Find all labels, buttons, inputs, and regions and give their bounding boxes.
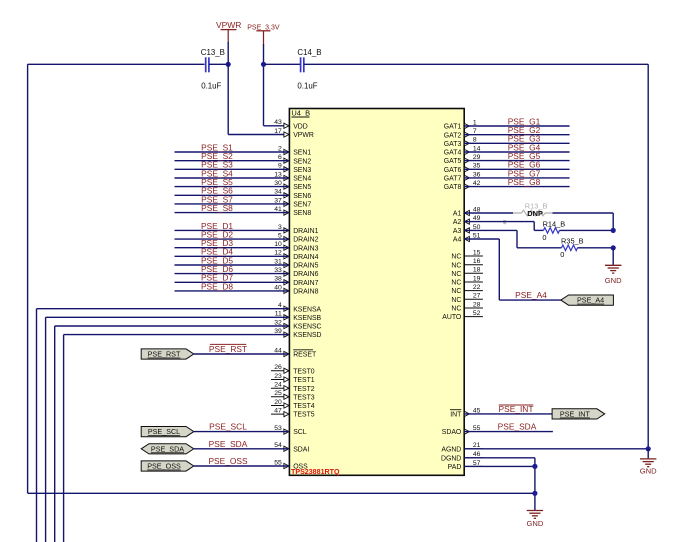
svg-text:0.1uF: 0.1uF: [201, 82, 221, 91]
svg-text:24: 24: [274, 382, 282, 389]
wire PSE_S6: [175, 186, 290, 196]
resistor R14_B: [542, 219, 565, 242]
node AGND junction: [646, 446, 651, 451]
svg-text:15: 15: [473, 249, 481, 256]
pin SEN4 (13): [274, 171, 311, 182]
ground GND (A-network): [605, 265, 622, 285]
off-page connector PSE_INT: [552, 409, 605, 419]
wire PSE_S3: [175, 160, 290, 170]
wire PSE_G6: [464, 160, 569, 170]
svg-text:TEST0: TEST0: [293, 368, 315, 375]
wire A1 to junction: [553, 213, 614, 230]
pin GAT8 (42): [444, 180, 481, 191]
svg-text:NC: NC: [451, 254, 461, 261]
wire PSE_D7: [175, 273, 290, 283]
wire R35_B to junction: [578, 247, 614, 249]
svg-text:NC: NC: [451, 271, 461, 278]
wire PSE_S4: [175, 168, 290, 178]
svg-text:PSE_G8: PSE_G8: [508, 177, 541, 187]
svg-text:18: 18: [473, 267, 481, 274]
wire PSE_D6: [175, 264, 290, 274]
pin AGND (21): [441, 442, 483, 453]
wire R14_B to junction: [560, 229, 614, 231]
pin SEN1 (2): [278, 145, 311, 156]
wire KSENSB: [46, 317, 289, 542]
svg-text:GAT8: GAT8: [444, 184, 462, 191]
wire PSE_S2: [175, 151, 290, 161]
wire VPWR rail top-left to C13_B: [28, 63, 205, 65]
ground GND (AGND): [640, 459, 657, 476]
svg-text:C13_B: C13_B: [201, 48, 225, 57]
wire PSE_G3: [464, 134, 569, 144]
pin DRAIN5 (31): [274, 258, 318, 269]
wire PSE_D5: [175, 255, 290, 265]
pin GAT5 (29): [444, 154, 481, 165]
svg-text:DNP: DNP: [527, 209, 543, 218]
wire PSE_S7: [175, 194, 290, 204]
pin SEN3 (9): [278, 163, 311, 174]
svg-text:SEN5: SEN5: [293, 184, 311, 191]
svg-text:22: 22: [473, 284, 481, 291]
svg-text:17: 17: [274, 128, 282, 135]
pin GAT1 (1): [444, 119, 477, 130]
svg-text:NC: NC: [451, 306, 461, 313]
pin NC (15): [451, 249, 483, 260]
wire PSE_OSS net label: [194, 456, 289, 466]
power symbol PSE_3.3V: [247, 24, 280, 45]
wire PSE_S8: [175, 203, 290, 213]
svg-text:GAT2: GAT2: [444, 132, 462, 139]
svg-text:DRAIN7: DRAIN7: [293, 280, 318, 287]
wire PSE_RST net label: [194, 344, 289, 354]
svg-text:16: 16: [473, 258, 481, 265]
pin A1 (48): [453, 206, 481, 217]
wire PSE_D1: [175, 221, 290, 231]
svg-text:PSE_RST: PSE_RST: [209, 344, 247, 354]
resistor R13_B (DNP): [464, 201, 552, 224]
node GND return junction: [532, 491, 537, 496]
wire PSE_D3: [175, 238, 290, 248]
wire PAD: [464, 465, 535, 467]
pin RESET (44): [274, 347, 317, 358]
wire PSE_SDA net label: [194, 439, 289, 449]
off-page connector PSE_OSS: [141, 461, 194, 471]
svg-text:R35_B: R35_B: [561, 237, 584, 246]
svg-text:DRAIN6: DRAIN6: [293, 271, 318, 278]
svg-text:TEST1: TEST1: [293, 377, 315, 384]
wire KSENSD: [64, 335, 289, 542]
node PSE_3.3V junction: [261, 62, 266, 67]
svg-text:VDD: VDD: [293, 123, 308, 130]
pin NC (27): [451, 293, 483, 304]
pin INT (45): [450, 407, 481, 418]
pin AUTO (52): [442, 310, 483, 321]
svg-text:PSE_SCL: PSE_SCL: [209, 422, 247, 432]
resistor R35_B: [560, 237, 583, 259]
off-page connector PSE_A4: [561, 295, 614, 305]
wire bottom horizontal to GND junction: [28, 492, 535, 494]
node A2/R14_B junction: [611, 228, 616, 233]
svg-text:C14_B: C14_B: [297, 48, 321, 57]
svg-text:AGND: AGND: [441, 446, 461, 453]
pin SEN7 (37): [274, 197, 311, 208]
node A3/R35_B junction: [611, 245, 616, 250]
svg-text:GAT1: GAT1: [444, 124, 462, 131]
pin SEN2 (6): [278, 154, 311, 165]
svg-text:KSENSD: KSENSD: [293, 332, 321, 339]
pin DRAIN4 (12): [274, 250, 318, 261]
capacitor C14_B: [297, 48, 321, 91]
pin TEST1 (23): [271, 373, 315, 384]
svg-text:VPWR: VPWR: [293, 132, 314, 139]
svg-text:DRAIN1: DRAIN1: [293, 228, 318, 235]
svg-text:PSE_SDA: PSE_SDA: [498, 422, 537, 432]
pin A3 (50): [453, 224, 481, 235]
svg-text:GAT4: GAT4: [444, 150, 462, 157]
svg-text:27: 27: [473, 293, 481, 300]
svg-text:26: 26: [274, 364, 282, 371]
svg-text:PSE_SCL: PSE_SCL: [148, 427, 180, 436]
svg-text:R14_B: R14_B: [543, 219, 566, 228]
off-page connector PSE_SDA: [141, 444, 194, 454]
wire PSE_G8: [464, 177, 569, 187]
wire PSE_G7: [464, 168, 569, 178]
svg-text:A1: A1: [453, 211, 462, 218]
svg-text:SCL: SCL: [293, 429, 307, 436]
pin GAT6 (35): [444, 163, 481, 174]
pin TEST3 (25): [271, 390, 315, 401]
pin NC (28): [451, 301, 483, 312]
pin SDAO (55): [442, 425, 481, 436]
pin DGND (46): [441, 451, 483, 462]
svg-text:KSENSB: KSENSB: [293, 315, 321, 322]
pin GAT7 (36): [444, 171, 481, 182]
wire DGND: [464, 458, 535, 510]
wire AGND to right frame: [464, 448, 648, 450]
svg-text:DGND: DGND: [441, 455, 461, 462]
wire PSE_3.3V vertical to pin VDD: [264, 44, 290, 126]
node PAD junction: [532, 464, 537, 469]
pin VPWR (17): [274, 128, 314, 139]
pin KSENSB (11): [275, 311, 322, 322]
pin NC (19): [451, 275, 483, 286]
svg-text:52: 52: [473, 310, 481, 317]
wire C14_B to right frame: [304, 63, 648, 65]
wire PSE_G4: [464, 142, 569, 152]
pin TEST2 (24): [271, 382, 315, 393]
svg-text:U4_B: U4_B: [291, 109, 310, 118]
node VPWR junction: [226, 62, 231, 67]
svg-text:OSS: OSS: [293, 464, 308, 471]
svg-text:SDAO: SDAO: [442, 429, 462, 436]
svg-text:NC: NC: [451, 288, 461, 295]
svg-text:SEN3: SEN3: [293, 167, 311, 174]
svg-text:A2: A2: [453, 219, 462, 226]
svg-text:TEST4: TEST4: [293, 403, 315, 410]
pin SEN5 (30): [274, 180, 311, 191]
svg-text:GAT5: GAT5: [444, 158, 462, 165]
svg-text:DRAIN5: DRAIN5: [293, 263, 318, 270]
svg-text:20: 20: [274, 399, 282, 406]
pin SDAI (54): [274, 442, 309, 453]
svg-text:SEN6: SEN6: [293, 193, 311, 200]
wire A3 to R35_B: [464, 230, 561, 247]
svg-text:TEST3: TEST3: [293, 394, 315, 401]
pin DRAIN1 (3): [278, 224, 319, 235]
svg-text:PSE_A4: PSE_A4: [515, 290, 547, 300]
svg-text:25: 25: [274, 390, 282, 397]
svg-text:PSE_INT: PSE_INT: [560, 410, 591, 419]
pin SEN8 (41): [274, 206, 311, 217]
pin KSENSD (39): [274, 328, 321, 339]
svg-text:A3: A3: [453, 228, 462, 235]
capacitor C13_B: [174, 48, 225, 91]
svg-text:28: 28: [473, 301, 481, 308]
wire junction to ground: [612, 248, 614, 265]
svg-text:PSE_OSS: PSE_OSS: [208, 456, 248, 466]
svg-text:0: 0: [560, 250, 564, 259]
wire PSE_G2: [464, 125, 569, 135]
wire PSE_S1: [175, 142, 290, 152]
wire INT to PSE_INT tag: [464, 404, 552, 414]
op-amp U4_B IC body TPS23881RTQ: [289, 109, 464, 477]
svg-text:SEN4: SEN4: [293, 176, 311, 183]
svg-text:SEN7: SEN7: [293, 202, 311, 209]
svg-text:DRAIN8: DRAIN8: [293, 289, 318, 296]
pin GAT3 (8): [444, 137, 477, 148]
wire right frame vertical to GND: [647, 64, 649, 449]
ground GND (DGND/PAD): [526, 511, 543, 529]
svg-text:INT: INT: [450, 412, 462, 419]
svg-text:GAT6: GAT6: [444, 167, 462, 174]
wire PSE_G5: [464, 151, 569, 161]
svg-text:KSENSC: KSENSC: [293, 324, 321, 331]
off-page connector PSE_RST: [141, 349, 194, 359]
pin DRAIN3 (10): [274, 241, 318, 252]
pin SCL (53): [274, 425, 307, 436]
off-page connector PSE_SCL: [141, 427, 194, 437]
svg-text:RESET: RESET: [293, 352, 317, 359]
pin KSENSA (4): [278, 302, 322, 313]
svg-text:PSE_SDA: PSE_SDA: [151, 444, 184, 453]
pin VDD (43): [274, 119, 308, 130]
pin NC (22): [451, 284, 483, 295]
svg-text:AUTO: AUTO: [442, 314, 462, 321]
pin TEST5 (47): [271, 408, 315, 419]
svg-text:PSE_SDA: PSE_SDA: [209, 439, 248, 449]
svg-text:DRAIN2: DRAIN2: [293, 237, 318, 244]
svg-text:NC: NC: [451, 280, 461, 287]
svg-text:TEST2: TEST2: [293, 386, 315, 393]
pin DRAIN8 (40): [274, 284, 318, 295]
svg-text:SEN8: SEN8: [293, 210, 311, 217]
svg-text:47: 47: [274, 408, 282, 415]
svg-text:0.1uF: 0.1uF: [297, 82, 317, 91]
svg-text:43: 43: [274, 119, 282, 126]
wire PSE_SCL net label: [194, 422, 289, 432]
svg-text:NC: NC: [451, 297, 461, 304]
wire VPWR vertical to pin VPWR: [228, 42, 289, 135]
pin KSENSC (32): [274, 319, 321, 330]
svg-text:TEST5: TEST5: [293, 412, 315, 419]
wire KSENSA: [37, 309, 290, 542]
svg-text:GND: GND: [526, 519, 543, 528]
wire left frame vertical (GND return): [27, 64, 29, 493]
wire PSE_3.3V node to C14_B: [264, 63, 301, 65]
svg-text:VPWR: VPWR: [216, 20, 242, 30]
svg-text:GAT7: GAT7: [444, 176, 462, 183]
pin DRAIN7 (38): [274, 276, 318, 287]
wire PSE_D8: [175, 281, 290, 291]
svg-text:DRAIN4: DRAIN4: [293, 254, 318, 261]
power symbol VPWR: [216, 20, 242, 43]
wire PSE_D2: [175, 230, 290, 240]
wire C13_B to VPWR node: [209, 63, 228, 65]
svg-text:SEN1: SEN1: [293, 150, 311, 157]
svg-text:GAT3: GAT3: [444, 141, 462, 148]
svg-text:0: 0: [542, 233, 546, 242]
svg-text:PSE_OSS: PSE_OSS: [147, 462, 181, 471]
svg-text:GND: GND: [605, 276, 622, 285]
svg-text:PSE_S8: PSE_S8: [201, 203, 233, 213]
svg-text:A4: A4: [453, 237, 462, 244]
svg-text:SEN2: SEN2: [293, 158, 311, 165]
svg-text:GND: GND: [640, 467, 657, 476]
svg-text:23: 23: [274, 373, 282, 380]
pin GAT2 (7): [444, 128, 477, 139]
svg-text:PSE_D8: PSE_D8: [201, 281, 233, 291]
pin DRAIN6 (33): [274, 267, 318, 278]
pin NC (18): [451, 267, 483, 278]
wire PSE_G1: [464, 116, 569, 126]
pin TEST4 (20): [271, 399, 315, 410]
svg-text:DRAIN3: DRAIN3: [293, 245, 318, 252]
svg-text:NC: NC: [451, 262, 461, 269]
svg-text:PSE_A4: PSE_A4: [577, 296, 604, 305]
svg-text:KSENSA: KSENSA: [293, 306, 321, 313]
pin SEN6 (34): [274, 189, 311, 200]
pin OSS (55): [274, 459, 308, 470]
svg-text:SDAI: SDAI: [293, 446, 309, 453]
wire SDAO PSE_SDA: [464, 422, 553, 432]
wire PSE_S5: [175, 177, 290, 187]
pin A2 (49): [453, 215, 481, 226]
pin DRAIN2 (5): [278, 233, 319, 244]
wire AGND junction stub: [647, 449, 649, 459]
pin NC (16): [451, 258, 483, 269]
pin A4 (51): [453, 232, 481, 243]
wire A2 to R14_B: [464, 222, 543, 231]
wire A4 to PSE_A4 tag: [464, 239, 561, 300]
pin GAT4 (14): [444, 145, 481, 156]
svg-text:PSE_RST: PSE_RST: [148, 350, 181, 359]
wire PSE_D4: [175, 247, 290, 257]
wire KSENSC: [55, 326, 289, 542]
svg-text:19: 19: [473, 275, 481, 282]
pin TEST0 (26): [271, 364, 315, 375]
svg-text:PAD: PAD: [448, 464, 462, 471]
pin PAD (57): [448, 460, 483, 471]
